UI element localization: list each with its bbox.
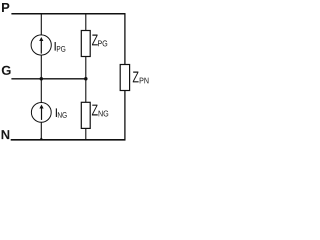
wire: ZPN bottom down to N bus right corner: [124, 91, 126, 140]
current source ING: [31, 103, 51, 123]
label IPG main: [55, 42, 56, 51]
impedance ZPG: [81, 31, 90, 57]
junction dot on N bus at ING branch: [40, 138, 42, 140]
label ZPG sub: [98, 40, 107, 46]
wire: ZPG bottom to G bus: [85, 57, 87, 79]
label ING main: [56, 108, 57, 117]
node label P: [2, 3, 9, 12]
label ZPN sub: [140, 78, 149, 84]
wire: P bus right corner down to ZPN top: [124, 14, 126, 65]
wire: ING bottom to N bus: [40, 122, 42, 140]
wire: P bus to IPG top: [40, 14, 42, 36]
wire: G bus (middle horizontal): [11, 78, 86, 80]
node label N: [2, 130, 10, 139]
junction dot on G bus at Z branch: [84, 77, 88, 81]
label ZNG main: [92, 105, 98, 116]
impedance ZNG: [81, 102, 90, 128]
label IPG sub: [57, 46, 65, 52]
wire: ZNG bottom to N bus: [85, 128, 87, 139]
node label G: [2, 66, 11, 75]
label ING sub: [58, 112, 67, 118]
wire: N bus (bottom horizontal): [11, 139, 126, 141]
wire: P bus (top horizontal): [11, 13, 125, 15]
label ZPN main: [133, 72, 139, 83]
wire: P bus to ZPG top: [85, 14, 87, 31]
label ZPG main: [92, 35, 98, 46]
junction dot on G bus at IPG/ING branch: [40, 77, 44, 81]
wire: G bus to ING top: [40, 79, 42, 103]
label ZNG sub: [99, 111, 109, 117]
wire: IPG bottom to G bus: [40, 55, 42, 79]
current source IPG: [31, 35, 51, 55]
wire: G bus to ZNG top: [85, 79, 87, 103]
impedance ZPN: [120, 65, 129, 91]
